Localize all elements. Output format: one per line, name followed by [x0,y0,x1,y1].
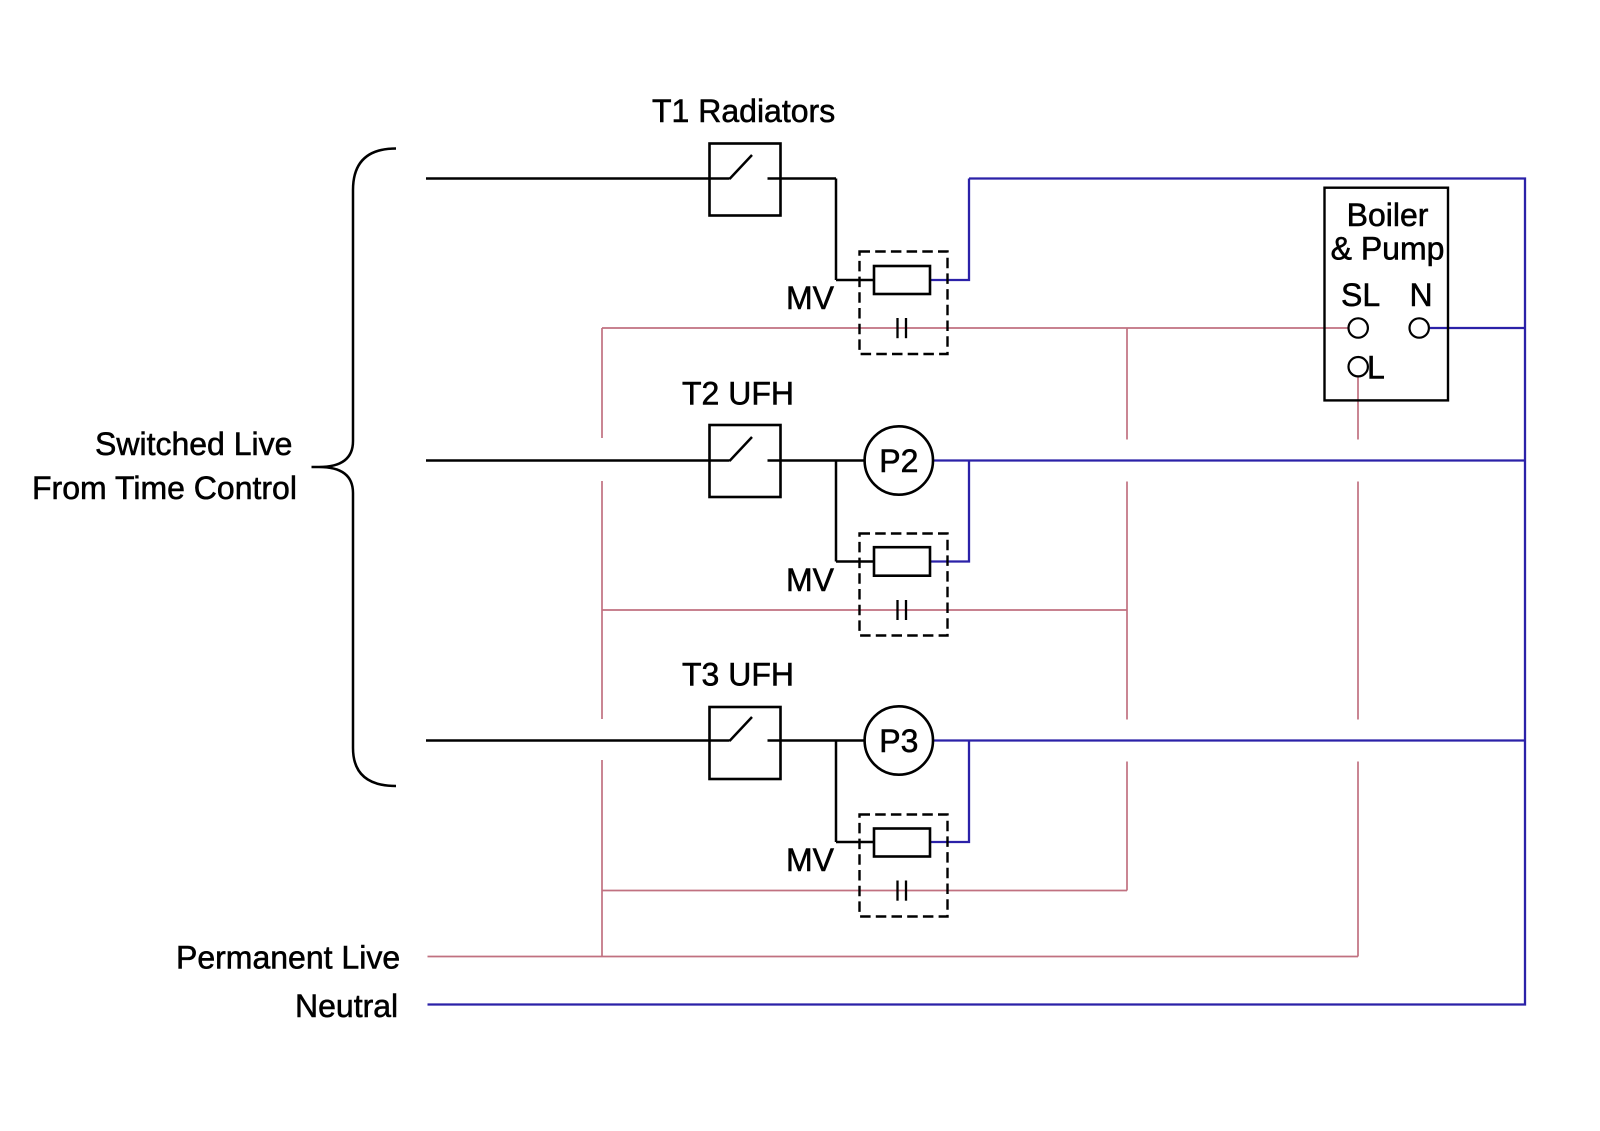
wire: neutral top run, right riser and bottom neutral rail [428,179,1526,1005]
motorized valve MV3 (dashed enclosure) [860,815,948,917]
wire: T2 switched live in [426,459,730,462]
svg-text:Neutral: Neutral [295,988,398,1024]
wire: neutral branch to MV3 motor [930,741,969,843]
terminal SL [1349,318,1368,337]
svg-text:T2 UFH: T2 UFH [682,376,794,412]
wire: end-switch row MV3 [602,890,1127,892]
pump P2 (circle) [865,426,933,494]
wire: T2 out contact to P2 [768,459,865,462]
svg-text:T3 UFH: T3 UFH [682,657,794,693]
end switch MV2 (contact bars) [896,600,898,620]
wire: neutral link to terminal N [1430,327,1525,329]
thermostat T3 (box) [710,707,781,779]
wire: neutral from P3 [933,739,1525,741]
wire: T2 junction drop to MV2 [835,461,838,562]
wire: T3 switched live in [426,739,730,742]
svg-text:Permanent Live: Permanent Live [176,940,400,976]
motorized valve MV1 (dashed enclosure) [860,252,948,355]
wire: permanent live to SL terminal [602,327,1348,329]
thermostat T1 (box) [710,144,781,216]
wire: end-switch riser (lower) [1126,762,1128,891]
wire: end-switch riser (upper) [1126,328,1128,440]
svg-text:Boiler: Boiler [1347,197,1429,233]
resistor: MV1 motor [874,266,930,294]
svg-text:T1 Radiators: T1 Radiators [652,93,835,129]
boiler unit (box) [1325,188,1449,401]
wire: T1 switched live in [426,177,730,180]
svg-text:N: N [1410,277,1433,313]
svg-text:MV: MV [786,842,835,878]
svg-text:Switched Live: Switched Live [95,426,292,462]
svg-text:& Pump: & Pump [1331,231,1445,267]
thermostat T2 (box) [710,425,781,497]
wire: permanent live trunk (middle) [601,481,603,719]
wire: end-switch riser (middle) [1126,482,1128,720]
wire: T3 junction drop to MV3 [835,741,838,843]
wire: permanent live trunk (upper) [601,328,603,438]
svg-text:MV: MV [786,280,835,316]
wire: T1 out contact [768,177,837,180]
thermostat T1 switch blade [730,155,753,179]
svg-text:From Time Control: From Time Control [32,470,297,506]
wire: MV3 motor lead [836,841,874,844]
wire: neutral branch to MV2 motor [930,461,969,562]
wire: neutral from MV1 motor [930,179,969,281]
pump P3 (circle) [865,706,933,774]
wire: T1 drop to MV1 [835,179,838,281]
wire: L terminal drop (middle) [1357,482,1359,720]
brace: switched live bundle [312,149,397,787]
resistor: MV2 motor [874,547,930,576]
thermostat T2 switch blade [730,437,753,461]
thermostat T3 switch blade [730,717,753,741]
wire: T3 out contact to P3 [768,739,865,742]
wire: L terminal drop (upper) [1357,377,1359,440]
wire: MV2 motor lead [836,560,874,563]
resistor: MV3 motor [874,829,930,857]
wire: MV1 motor lead [836,279,874,282]
wire: neutral from P2 [933,459,1525,461]
wire: permanent live trunk (lower) [601,760,603,957]
end switch MV1 (contact bars) [896,318,898,338]
terminal N [1410,318,1429,337]
svg-text:SL: SL [1341,277,1380,313]
svg-text:P3: P3 [879,723,918,759]
svg-text:MV: MV [786,562,835,598]
end switch MV3 (contact bars) [896,881,898,901]
wire: permanent live bottom rail [428,956,1359,958]
svg-text:L: L [1367,350,1385,386]
terminal L [1349,357,1368,376]
motorized valve MV2 (dashed enclosure) [860,534,948,636]
svg-text:P2: P2 [879,443,918,479]
wire: L terminal drop (lower) [1357,762,1359,957]
wire: end-switch row MV2 [602,609,1127,611]
